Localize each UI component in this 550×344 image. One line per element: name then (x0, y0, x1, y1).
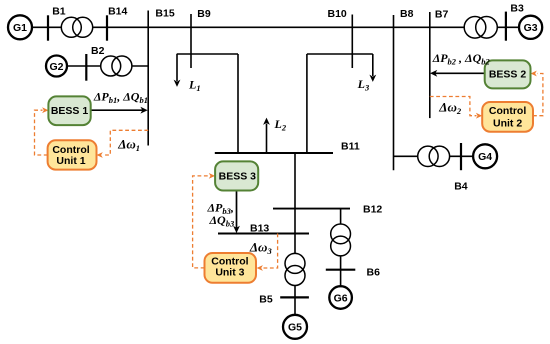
svg-text:B12: B12 (363, 204, 382, 216)
svg-text:G5: G5 (288, 322, 302, 334)
svg-text:B15: B15 (155, 8, 174, 20)
svg-text:B7: B7 (435, 9, 449, 21)
svg-text:B6: B6 (367, 267, 381, 279)
svg-text:Unit 2: Unit 2 (493, 118, 522, 130)
svg-text:Unit 1: Unit 1 (56, 155, 85, 167)
svg-text:B14: B14 (108, 5, 127, 17)
svg-text:B5: B5 (259, 294, 273, 306)
svg-text:B13: B13 (250, 223, 269, 235)
svg-text:BESS 2: BESS 2 (489, 69, 527, 81)
svg-text:G3: G3 (524, 22, 538, 34)
svg-text:BESS 3: BESS 3 (219, 171, 257, 183)
svg-text:G4: G4 (478, 151, 492, 163)
svg-text:B4: B4 (454, 181, 468, 193)
svg-text:G6: G6 (334, 292, 348, 304)
svg-text:B3: B3 (510, 3, 524, 15)
svg-text:B9: B9 (197, 8, 211, 20)
svg-text:G2: G2 (49, 61, 63, 73)
svg-text:Unit 3: Unit 3 (215, 267, 244, 279)
svg-text:G1: G1 (13, 22, 27, 34)
svg-text:B2: B2 (91, 45, 105, 57)
svg-text:BESS 1: BESS 1 (51, 105, 89, 117)
svg-text:Control: Control (489, 105, 526, 117)
svg-text:B8: B8 (400, 8, 414, 20)
svg-text:B10: B10 (328, 8, 347, 20)
svg-text:B11: B11 (341, 141, 360, 153)
svg-text:B1: B1 (52, 5, 66, 17)
